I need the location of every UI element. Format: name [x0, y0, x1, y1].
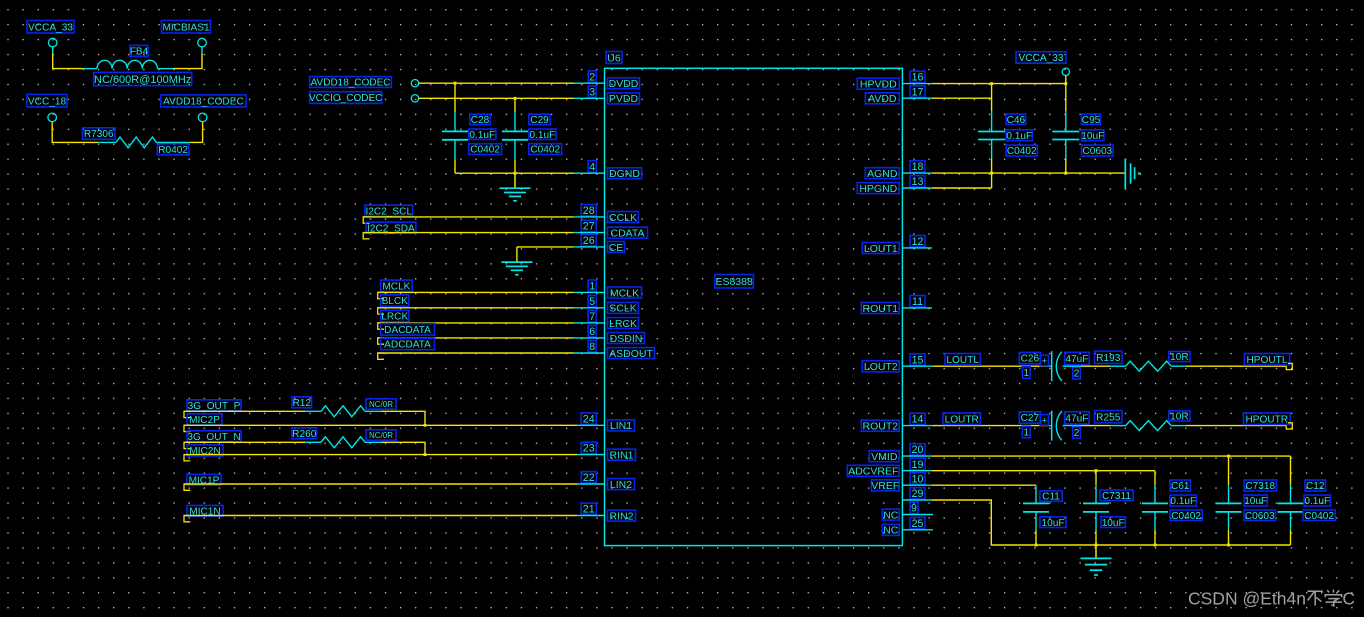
pin 21 RIN2 label [581, 503, 635, 522]
svg-text:MICBIAS1: MICBIAS1 [162, 22, 210, 33]
svg-text:MCLK: MCLK [382, 281, 410, 292]
label R12 [292, 397, 312, 409]
wire pin3 PVDD [419, 97, 605, 99]
capacitor C7311 [1083, 471, 1109, 545]
power port VCCA_33 [27, 21, 74, 34]
wire pin25 NC stub [902, 529, 933, 531]
svg-text:C46: C46 [1007, 115, 1026, 126]
svg-text:10R: 10R [1170, 412, 1189, 423]
svg-text:13: 13 [912, 176, 924, 188]
value 0.1uF [529, 129, 556, 141]
svg-text:10uF: 10uF [1041, 518, 1064, 529]
svg-text:3G_OUT_P: 3G_OUT_P [188, 401, 241, 412]
label C29 [529, 114, 551, 126]
wire pin26 CE [517, 247, 605, 262]
value C0402 [469, 144, 502, 156]
junction [514, 97, 517, 100]
svg-text:5: 5 [589, 296, 595, 308]
svg-text:2: 2 [1074, 428, 1080, 439]
label C28 [470, 114, 491, 126]
net label 3G_OUT_P [184, 400, 241, 418]
junction [424, 453, 427, 456]
net label 3G_OUT_N [184, 431, 241, 449]
pin 29 NC29 label [910, 488, 925, 501]
svg-text:SCLK: SCLK [609, 303, 636, 315]
svg-text:NC/0R: NC/0R [369, 431, 393, 440]
svg-text:HPOUTR: HPOUTR [1245, 414, 1288, 425]
wire [378, 291, 605, 293]
svg-text:DVDD: DVDD [609, 78, 639, 90]
pin 1 label [1022, 426, 1030, 438]
svg-text:C95: C95 [1082, 115, 1101, 126]
wire pin28 CCLK [363, 216, 604, 218]
wire [52, 123, 98, 143]
capacitor C95 [1052, 84, 1079, 174]
label FB4 [130, 45, 149, 57]
svg-text:15: 15 [912, 354, 924, 366]
svg-text:ES8388: ES8388 [715, 276, 753, 288]
net label MIC2P [184, 414, 222, 432]
value 10uF [1081, 130, 1104, 142]
capacitor C27 polarized [1052, 411, 1062, 441]
wire [201, 46, 203, 53]
wire pin24 LIN1 [184, 424, 605, 426]
svg-text:C0603: C0603 [1245, 511, 1275, 522]
svg-text:C7318: C7318 [1245, 481, 1275, 492]
pin 2 label [1073, 367, 1081, 379]
value C0603 [1244, 510, 1275, 522]
label R7306 [83, 128, 116, 140]
net label HPOUTL [1244, 354, 1292, 370]
svg-text:ROUT2: ROUT2 [863, 420, 899, 432]
label C61 [1170, 480, 1191, 492]
terminal AVDD18_CODEC [411, 80, 418, 87]
pin 5 SCLK label [588, 295, 638, 314]
junction [1064, 82, 1067, 85]
label C27+ [1019, 412, 1048, 427]
svg-text:9: 9 [911, 503, 917, 515]
net label I2C2_SCL [363, 205, 412, 223]
svg-text:PVDD: PVDD [609, 93, 639, 105]
wire pin11 ROUT1 stub [902, 307, 932, 309]
junction [1095, 544, 1098, 547]
pin 24 LIN1 label [581, 413, 634, 432]
svg-text:AGND: AGND [867, 168, 898, 180]
junction [454, 82, 457, 85]
wire [51, 121, 53, 122]
svg-text:C11: C11 [1042, 492, 1060, 503]
svg-text:10: 10 [912, 473, 924, 485]
pin 2 label [1073, 427, 1081, 439]
terminal AVDD18_CODEC [198, 113, 207, 122]
resistor R12 [321, 406, 365, 417]
net port VCCIO_CODEC [309, 92, 382, 104]
resistor R193 [1126, 361, 1172, 371]
svg-text:MCLK: MCLK [610, 287, 639, 299]
value 0.1uF [1304, 495, 1331, 507]
ferrite bead FB4 [97, 60, 157, 68]
wire [365, 442, 425, 454]
svg-text:R193: R193 [1096, 353, 1121, 364]
capacitor C61 [1142, 471, 1168, 545]
svg-text:LRCK: LRCK [609, 318, 637, 330]
svg-text:21: 21 [583, 504, 595, 516]
svg-text:0.1uF: 0.1uF [529, 130, 555, 141]
label C26+ [1019, 352, 1048, 367]
svg-text:CE: CE [609, 242, 624, 254]
wire [83, 68, 97, 70]
wire [98, 141, 116, 143]
svg-text:1: 1 [1023, 428, 1029, 439]
pin 4 DGND label [588, 161, 641, 180]
junction [424, 424, 427, 427]
svg-text:DSDIN: DSDIN [610, 333, 643, 345]
pin 1 label [1022, 367, 1030, 379]
value 10uF [1040, 517, 1066, 529]
svg-text:VREF: VREF [871, 480, 899, 492]
pin 26 CE label [581, 235, 624, 254]
label R193 [1095, 351, 1123, 364]
svg-text:18: 18 [912, 161, 924, 173]
wire [1171, 365, 1286, 367]
svg-text:+: + [1042, 356, 1048, 367]
wire pin18 AGND [902, 172, 1124, 174]
svg-text:12: 12 [912, 236, 924, 248]
pin 22 LIN2 label [581, 472, 634, 491]
svg-text:HPOUTL: HPOUTL [1247, 355, 1288, 366]
svg-text:CCLK: CCLK [609, 212, 637, 224]
svg-text:C61: C61 [1171, 481, 1190, 492]
wire [1171, 425, 1286, 427]
pin 13 HPGND label [857, 176, 925, 195]
wire pin LOUT row LOUTL [902, 365, 1051, 367]
svg-text:10R: 10R [1170, 352, 1189, 363]
ground [500, 173, 531, 201]
svg-text:25: 25 [912, 518, 924, 530]
svg-text:NC/0R: NC/0R [369, 400, 393, 409]
pin 23 RIN1 label [581, 442, 635, 461]
value NC/600R@100MHz [94, 72, 192, 86]
pin 27 CDATA label [581, 220, 647, 239]
svg-text:NC: NC [883, 525, 899, 537]
wire pin4 DGND [455, 172, 605, 174]
svg-text:1: 1 [589, 281, 595, 293]
svg-text:26: 26 [583, 235, 595, 247]
wire [190, 122, 203, 143]
power port VCC_18 [27, 94, 67, 107]
net label ADCDATA [378, 338, 435, 359]
value 10R [1169, 411, 1190, 423]
pin 25 NC label [882, 517, 925, 536]
pin 14 ROUT2 label [861, 413, 925, 432]
terminal VCC_18 [48, 113, 57, 122]
terminal VCCIO_CODEC [411, 95, 418, 102]
label C7318 [1244, 480, 1277, 492]
net label MIC1P [184, 474, 221, 490]
svg-text:0.1uF: 0.1uF [469, 130, 495, 141]
svg-text:17: 17 [912, 86, 924, 98]
label C11 [1040, 491, 1062, 503]
svg-text:11: 11 [912, 296, 923, 308]
pin 20 VMID label [869, 444, 925, 463]
wire pin19 ADCVREF [902, 470, 1155, 472]
junction [990, 82, 993, 85]
svg-text:28: 28 [583, 205, 595, 217]
net port AVDD18_CODEC [161, 95, 246, 108]
wire pin10 VREF [902, 484, 1036, 486]
svg-text:RIN1: RIN1 [610, 449, 634, 461]
svg-text:U6: U6 [607, 52, 621, 64]
svg-text:C7311: C7311 [1102, 491, 1131, 502]
capacitor C11 [1023, 485, 1049, 545]
capacitor C26 polarized [1052, 351, 1062, 381]
svg-text:VCC_18: VCC_18 [28, 96, 67, 107]
wire pin17 AVDD [902, 97, 991, 99]
junction [1064, 172, 1067, 175]
svg-text:1: 1 [1023, 368, 1029, 379]
wire pin29 [902, 500, 1290, 545]
pin 1 MCLK label [588, 280, 641, 299]
wire [52, 46, 54, 53]
svg-text:LIN2: LIN2 [610, 479, 632, 491]
svg-text:C0402: C0402 [530, 145, 560, 156]
net port MICBIAS1 [162, 21, 211, 34]
svg-text:C27: C27 [1021, 413, 1040, 424]
svg-text:BLCK: BLCK [382, 296, 409, 307]
svg-text:47uF: 47uF [1065, 413, 1088, 424]
pin 15 LOUT2 label [862, 354, 925, 373]
svg-text:LOUTR: LOUTR [945, 414, 979, 425]
svg-text:0.1uF: 0.1uF [1304, 496, 1330, 507]
svg-text:R12: R12 [292, 398, 311, 409]
svg-text:10uF: 10uF [1244, 496, 1267, 507]
svg-text:MIC2N: MIC2N [189, 446, 220, 457]
value NC/0R [366, 399, 396, 409]
wire [173, 54, 202, 69]
svg-text:ROUT1: ROUT1 [863, 303, 899, 315]
svg-text:VCCA_33: VCCA_33 [1019, 53, 1064, 64]
wire [365, 411, 425, 425]
svg-text:NC: NC [883, 509, 899, 521]
net label LOUTL [945, 354, 980, 366]
svg-text:ASDOUT: ASDOUT [609, 348, 653, 360]
net label LRCK [378, 310, 409, 329]
wire [184, 410, 321, 412]
svg-text:R0402: R0402 [158, 145, 188, 156]
svg-text:19: 19 [912, 459, 924, 471]
value 10uF [1244, 495, 1267, 507]
junction [1035, 544, 1038, 547]
svg-text:20: 20 [912, 444, 924, 456]
wire [378, 337, 605, 339]
power port VCCA_33 [1016, 52, 1066, 64]
value 0.1uF [1006, 130, 1032, 142]
svg-text:10uF: 10uF [1102, 518, 1125, 529]
svg-text:22: 22 [583, 472, 595, 484]
wire [184, 441, 321, 443]
capacitor C46 [978, 84, 1005, 174]
svg-text:CSDN @Eth4n: CSDN @Eth4n [1188, 589, 1306, 609]
net label MCLK [378, 280, 413, 299]
svg-text:0.1uF: 0.1uF [1170, 496, 1196, 507]
pin 7 LRCK label [588, 311, 638, 330]
svg-text:0.1uF: 0.1uF [1006, 131, 1032, 142]
junction [1095, 469, 1098, 472]
pin 8 ASDOUT label [588, 341, 654, 360]
value 10R [1169, 352, 1190, 364]
pin 3 PVDD label [588, 86, 639, 105]
pin 2 DVDD label [588, 71, 639, 90]
svg-text:HPGND: HPGND [859, 183, 897, 195]
pin 19 ADCVREF label [847, 458, 925, 477]
svg-text:C0402: C0402 [1304, 511, 1334, 522]
svg-text:C0402: C0402 [1171, 511, 1201, 522]
wire pin27 CDATA [363, 232, 604, 234]
svg-text:ADCDATA: ADCDATA [384, 340, 431, 351]
svg-text:LOUT1: LOUT1 [864, 243, 898, 255]
svg-text:MIC2P: MIC2P [189, 415, 220, 426]
wire pin LOUT row LOUTR [902, 425, 1051, 427]
svg-text:3: 3 [589, 86, 595, 98]
wire pin20 VMID [902, 455, 1290, 457]
junction [1154, 544, 1157, 547]
net port AVDD18_CODEC [310, 77, 392, 89]
pin 16 HPVDD label [857, 71, 925, 90]
wire pin16 HPVDD [902, 83, 1065, 85]
svg-text:DGND: DGND [609, 168, 640, 180]
svg-text:3G_OUT_N: 3G_OUT_N [187, 432, 240, 443]
junction [514, 172, 517, 175]
svg-text:29: 29 [912, 488, 924, 500]
pin 18 AGND label [865, 161, 925, 180]
terminal VCCA_33 [48, 38, 57, 47]
value 0.1uF [1170, 495, 1197, 507]
value 47uF [1065, 352, 1090, 365]
wire [156, 141, 189, 143]
svg-text:R7306: R7306 [84, 129, 114, 140]
ground [501, 262, 532, 275]
label C95 [1082, 114, 1101, 126]
label R260 [292, 428, 317, 440]
svg-text:LOUTL: LOUTL [946, 355, 979, 366]
net label LOUTR [943, 413, 980, 425]
svg-text:14: 14 [912, 414, 924, 426]
wire [378, 352, 605, 354]
wire [1063, 365, 1126, 367]
net label I2C2_SDA [363, 222, 416, 239]
svg-text:10uF: 10uF [1081, 131, 1104, 142]
terminal MICBIAS1 [198, 38, 207, 47]
junction [1227, 455, 1230, 458]
wire pin13 HPGND [902, 173, 991, 188]
wire pin12 LOUT1 stub [902, 247, 932, 249]
svg-text:ADCVREF: ADCVREF [848, 466, 898, 478]
svg-text:C: C [1342, 589, 1355, 609]
svg-text:16: 16 [912, 72, 924, 84]
junction [990, 172, 993, 175]
label C46 [1006, 114, 1025, 126]
net label BLCK [378, 295, 409, 314]
capacitor C7318 [1216, 456, 1242, 545]
value 0.1uF [469, 129, 496, 141]
capacitor C12 [1278, 456, 1304, 545]
pin 28 CCLK label [581, 205, 638, 224]
svg-text:R260: R260 [292, 429, 317, 440]
value C0603 [1082, 145, 1113, 157]
junction [1227, 544, 1230, 547]
svg-text:AVDD18_CODEC: AVDD18_CODEC [163, 97, 244, 108]
pin 6 DSDIN label [588, 326, 644, 345]
svg-text:DACDATA: DACDATA [384, 325, 431, 336]
svg-text:LOUT2: LOUT2 [864, 361, 898, 373]
label R255 [1095, 411, 1123, 424]
svg-text:2: 2 [589, 71, 595, 83]
capacitor C29 [502, 98, 528, 173]
pin 9 NC label [882, 502, 918, 521]
svg-text:+: + [1042, 415, 1048, 426]
value C0402 [1303, 510, 1335, 522]
wire [53, 54, 83, 69]
svg-text:AVDD18_CODEC: AVDD18_CODEC [311, 78, 391, 89]
wire pin22 LIN2 [184, 483, 605, 485]
resistor R260 [321, 437, 365, 448]
label ES8388 [715, 275, 754, 289]
svg-text:FB4: FB4 [130, 47, 149, 58]
svg-text:C29: C29 [530, 115, 549, 126]
label U6 [606, 52, 622, 65]
svg-text:4: 4 [589, 161, 595, 173]
svg-text:C0402: C0402 [470, 145, 500, 156]
label C7311 [1100, 490, 1133, 502]
svg-text:VMID: VMID [871, 451, 898, 463]
svg-text:LRCK: LRCK [381, 312, 408, 323]
svg-text:NC/600R@100MHz: NC/600R@100MHz [94, 74, 191, 86]
svg-text:C0603: C0603 [1082, 146, 1112, 157]
wire [1063, 425, 1126, 427]
ground [1081, 545, 1112, 575]
svg-text:6: 6 [589, 326, 595, 338]
pin 12 LOUT1 label [862, 236, 925, 255]
wire [378, 307, 605, 309]
net label MIC1N [184, 505, 223, 521]
svg-text:HPVDD: HPVDD [860, 78, 897, 90]
wire pin23 RIN1 [184, 454, 605, 456]
svg-text:AVDD: AVDD [868, 93, 897, 105]
net label MIC2N [184, 445, 223, 461]
svg-text:23: 23 [583, 443, 595, 455]
pin 11 ROUT1 label [861, 296, 925, 315]
ground earth [1125, 159, 1141, 189]
value C0402 [529, 144, 562, 156]
resistor R255 [1126, 421, 1172, 431]
svg-text:C12: C12 [1306, 481, 1325, 492]
svg-text:VCCIO_CODEC: VCCIO_CODEC [309, 93, 382, 104]
value C0402 [1170, 510, 1202, 522]
value C0402 [1006, 145, 1037, 157]
resistor R7306 [116, 137, 156, 148]
wire pin9 NC stub [902, 514, 933, 516]
value NC/0R [366, 430, 396, 440]
pin 10 VREF label [871, 473, 925, 492]
svg-text:7: 7 [589, 311, 595, 323]
wire [378, 322, 605, 324]
value 47uF [1065, 412, 1090, 425]
op-amp U6 ES8388 body [605, 68, 903, 545]
svg-text:R255: R255 [1096, 412, 1121, 423]
label C12 [1305, 480, 1326, 492]
value 10uF [1101, 517, 1125, 529]
svg-text:C0402: C0402 [1007, 146, 1037, 157]
